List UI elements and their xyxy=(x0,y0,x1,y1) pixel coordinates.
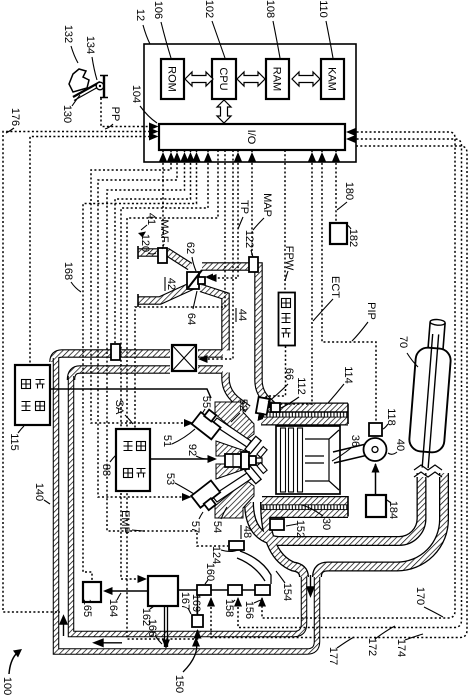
svg-text:112: 112 xyxy=(295,377,307,395)
throttle plate 64 xyxy=(188,270,202,288)
label MAF xyxy=(158,219,170,249)
box 162 xyxy=(148,576,178,606)
svg-text:CPU: CPU xyxy=(217,67,229,90)
flow arrow down in tee xyxy=(307,575,314,596)
MAF sensor 120 xyxy=(158,248,167,263)
RAM 108 xyxy=(266,59,289,99)
crankshaft 40 xyxy=(364,438,387,461)
label 120 xyxy=(139,234,156,254)
label 48 xyxy=(241,525,253,539)
svg-text:66: 66 xyxy=(283,368,295,380)
wire to sensor 144 xyxy=(115,150,191,343)
valve 167/169 xyxy=(192,615,203,627)
box 160 xyxy=(197,585,211,595)
bus arrow CPU-I/O vertical xyxy=(217,100,231,123)
svg-text:41: 41 xyxy=(145,213,157,225)
label 164 xyxy=(107,593,121,617)
arrow 162 to 165 xyxy=(106,590,148,592)
label 168 xyxy=(62,262,81,292)
label 130 xyxy=(61,95,80,123)
muffler break squiggle xyxy=(414,465,442,477)
valve actuator 51 xyxy=(192,407,225,440)
svg-text:140: 140 xyxy=(33,483,45,501)
ignition wire with arrow xyxy=(150,458,210,460)
exhaust sensor 152 xyxy=(270,519,284,530)
box 156 xyxy=(255,585,270,595)
label 174 xyxy=(395,634,423,657)
label 62 xyxy=(184,242,196,271)
svg-text:120: 120 xyxy=(139,234,151,252)
svg-text:170: 170 xyxy=(414,587,426,605)
cylinder wall end caps xyxy=(347,404,349,517)
label 170 xyxy=(414,587,443,617)
box 158 xyxy=(228,585,242,595)
PEDAL xyxy=(69,69,108,101)
wire to valve 167/169 xyxy=(127,150,218,639)
svg-text:177: 177 xyxy=(327,647,339,665)
svg-text:TP: TP xyxy=(238,200,250,214)
label 160 xyxy=(204,563,216,584)
label 51 xyxy=(161,429,195,447)
svg-text:102: 102 xyxy=(203,0,215,18)
label 156 xyxy=(243,600,261,619)
svg-text:PP: PP xyxy=(109,107,121,122)
svg-text:PIP: PIP xyxy=(365,302,377,320)
svg-text:172: 172 xyxy=(366,638,378,656)
wire 180 to sensor 182 xyxy=(335,150,337,222)
exhaust valve 54 stem xyxy=(212,473,251,502)
label 134 xyxy=(84,36,97,80)
label 177 xyxy=(327,637,354,665)
CONTROLLER xyxy=(144,44,356,162)
svg-text:167: 167 xyxy=(179,592,191,610)
svg-text:40: 40 xyxy=(394,439,406,451)
label 115 xyxy=(8,426,24,451)
wire to valve actuator 53 xyxy=(98,150,188,497)
label 55 xyxy=(200,396,212,414)
svg-text:168: 168 xyxy=(62,262,74,280)
svg-text:169: 169 xyxy=(190,594,202,612)
label 182 xyxy=(347,225,359,247)
svg-text:104: 104 xyxy=(130,85,142,103)
label 140 xyxy=(33,483,50,504)
label 66 xyxy=(268,368,295,402)
svg-text:184: 184 xyxy=(387,501,399,519)
svg-text:150: 150 xyxy=(173,675,185,693)
fuel system 115 box xyxy=(15,365,50,425)
label 57 xyxy=(189,512,203,533)
wire to valve actuator 51 xyxy=(91,150,190,423)
arrow 100 xyxy=(9,654,16,674)
svg-text:114: 114 xyxy=(342,366,354,384)
label TP xyxy=(238,200,250,229)
label 53 xyxy=(164,473,194,494)
label 40 xyxy=(388,439,406,454)
sensor 182 box xyxy=(330,223,347,244)
connecting rod xyxy=(333,444,368,463)
I/O 104 bar xyxy=(159,124,345,150)
flow arrow left in bottom pipe xyxy=(94,639,122,646)
svg-text:48: 48 xyxy=(241,526,253,538)
svg-text:156: 156 xyxy=(243,601,255,619)
svg-text:164: 164 xyxy=(107,599,119,617)
label 132 xyxy=(62,25,78,63)
box 165 xyxy=(83,582,101,602)
svg-text:SA: SA xyxy=(113,400,125,415)
inlet mouth caps xyxy=(137,246,139,307)
label 118 xyxy=(383,408,397,429)
flow arrow up in riser xyxy=(60,616,67,636)
svg-text:55: 55 xyxy=(200,396,212,408)
label FPW xyxy=(283,246,295,281)
svg-text:62: 62 xyxy=(184,242,196,254)
svg-text:166: 166 xyxy=(146,619,158,637)
svg-text:70: 70 xyxy=(397,336,409,348)
intake valve 52 stem xyxy=(212,418,251,447)
label 152 xyxy=(286,520,306,538)
svg-text:100: 100 xyxy=(1,677,13,695)
wire 168 xyxy=(83,150,197,581)
wire right loop to 156 xyxy=(262,132,455,618)
fuel injector 66 xyxy=(255,397,269,420)
wire FPW to driver xyxy=(284,150,286,292)
svg-text:106: 106 xyxy=(152,1,164,19)
wire EMP to sensor 124 xyxy=(107,150,228,546)
controller 12 outline xyxy=(144,44,356,162)
label 70 xyxy=(397,336,418,367)
KAM 110 xyxy=(321,59,344,99)
label 36 xyxy=(332,435,361,461)
svg-text:92: 92 xyxy=(186,444,198,456)
label 158 xyxy=(223,599,235,617)
conduit 154 xyxy=(237,551,271,584)
label 30 xyxy=(302,505,332,530)
label 104 xyxy=(130,85,157,123)
label 122 xyxy=(243,230,255,257)
label 52 xyxy=(231,399,249,422)
driver box xyxy=(279,293,296,346)
pedal plate 134 xyxy=(73,82,100,97)
label 180 xyxy=(337,182,355,210)
MAP sensor 122 xyxy=(249,257,258,272)
throttle actuator xyxy=(198,277,205,284)
coolant sleeve comb lower xyxy=(262,505,348,510)
label 176 xyxy=(6,108,21,133)
label 184 xyxy=(387,500,399,519)
svg-text:ROM: ROM xyxy=(166,66,178,92)
label 124 xyxy=(210,546,238,564)
mount bracket xyxy=(103,76,105,97)
svg-text:88: 88 xyxy=(100,464,112,476)
svg-text:122: 122 xyxy=(243,230,255,248)
EGR valve sensor 144 xyxy=(111,344,120,360)
wire 176 xyxy=(3,132,150,613)
exhaust sensor 124 xyxy=(229,541,244,550)
label 169 xyxy=(190,594,202,614)
svg-text:RAM: RAM xyxy=(271,67,283,91)
svg-text:51: 51 xyxy=(161,435,173,447)
label 41 with arrow xyxy=(138,213,157,238)
label 172 xyxy=(366,626,395,656)
label 106 xyxy=(152,1,171,58)
label 166 xyxy=(146,619,162,644)
head block lower (exhaust side) xyxy=(215,480,254,518)
head wedge mid-upper xyxy=(216,441,248,456)
label 54 xyxy=(211,507,227,533)
label 64 xyxy=(185,291,197,325)
svg-text:MAF: MAF xyxy=(158,219,170,243)
svg-text:54: 54 xyxy=(211,521,223,533)
svg-text:182: 182 xyxy=(347,229,359,247)
label SA xyxy=(113,400,133,424)
svg-text:180: 180 xyxy=(343,182,355,200)
svg-text:154: 154 xyxy=(281,583,293,601)
label 110 xyxy=(317,0,333,58)
svg-text:176: 176 xyxy=(9,108,21,126)
svg-text:152: 152 xyxy=(294,520,306,538)
svg-text:44: 44 xyxy=(236,309,248,321)
CPU 102 xyxy=(212,59,236,99)
wire MAP xyxy=(251,150,253,256)
spark plug 92 xyxy=(225,454,241,467)
hall sensor 118 xyxy=(369,423,382,436)
svg-text:130: 130 xyxy=(61,105,73,123)
muffler 70 xyxy=(407,318,454,469)
svg-text:52: 52 xyxy=(237,399,249,411)
label ECT xyxy=(313,276,341,321)
wire PIP xyxy=(322,150,376,421)
ROM 106 xyxy=(161,59,184,99)
label 167 xyxy=(179,592,191,614)
ignition system 88 box xyxy=(116,429,150,491)
wire MAF xyxy=(162,150,164,246)
throttle 62 body xyxy=(187,272,199,289)
label 162 xyxy=(140,606,154,626)
label 114 xyxy=(328,366,354,403)
svg-text:124: 124 xyxy=(210,546,222,564)
doser 166 xyxy=(165,606,168,647)
ECT sensor 112 xyxy=(271,403,280,412)
arrow 150 xyxy=(183,640,197,672)
svg-text:ECT: ECT xyxy=(329,276,341,298)
EGR cooler 142 xyxy=(172,345,196,371)
label 92 xyxy=(186,444,207,459)
head wedge mid-lower xyxy=(216,464,248,479)
bus arrow ROM-CPU xyxy=(185,72,213,86)
wire driver to injector 66 xyxy=(265,346,286,400)
svg-text:36: 36 xyxy=(349,435,361,447)
wire right loop to 160 xyxy=(211,146,467,638)
label 44 xyxy=(236,308,248,322)
label 102 xyxy=(203,0,225,58)
svg-text:EMP: EMP xyxy=(119,510,131,534)
svg-text:134: 134 xyxy=(84,36,96,54)
head block upper (intake side) xyxy=(215,402,254,440)
wire SA to ignition system xyxy=(135,150,225,428)
svg-text:12: 12 xyxy=(134,9,146,21)
pivot 130 xyxy=(96,82,104,90)
bus arrow CPU-RAM xyxy=(237,72,265,86)
svg-text:53: 53 xyxy=(164,473,176,485)
label PIP xyxy=(352,302,377,341)
label 12 xyxy=(134,9,150,44)
svg-text:108: 108 xyxy=(264,0,276,18)
svg-text:42: 42 xyxy=(165,278,177,290)
wire to EGR cooler 142 xyxy=(207,150,233,359)
label MAP xyxy=(253,193,273,230)
svg-text:118: 118 xyxy=(385,408,397,426)
fuel line xyxy=(50,389,211,398)
svg-text:FPW: FPW xyxy=(283,246,295,271)
label 112 xyxy=(281,377,307,408)
wire to 162 xyxy=(121,150,208,579)
svg-text:64: 64 xyxy=(185,313,197,325)
label EMP xyxy=(119,510,143,534)
label 42 xyxy=(165,277,177,291)
label 108 xyxy=(264,0,280,58)
svg-text:30: 30 xyxy=(320,518,332,530)
svg-text:110: 110 xyxy=(317,0,329,18)
foot 132 xyxy=(69,69,89,92)
svg-text:115: 115 xyxy=(8,433,20,451)
svg-text:57: 57 xyxy=(189,521,201,533)
box 184 xyxy=(366,495,386,517)
svg-text:MAP: MAP xyxy=(261,193,273,217)
wire PP from pedal xyxy=(101,98,150,127)
label 88 xyxy=(100,455,116,476)
svg-text:160: 160 xyxy=(204,563,216,581)
connectors xyxy=(178,590,255,615)
svg-text:KAM: KAM xyxy=(326,67,338,91)
label 154 xyxy=(276,571,293,601)
svg-text:I/O: I/O xyxy=(245,130,257,145)
valve actuator 53 xyxy=(191,480,224,513)
wire to fuel system xyxy=(30,137,150,365)
svg-text:174: 174 xyxy=(395,639,407,657)
svg-text:165: 165 xyxy=(81,599,93,617)
bus arrow RAM-KAM xyxy=(292,72,320,86)
wire ECT xyxy=(281,150,312,404)
coolant sleeve comb upper xyxy=(262,412,348,417)
wire right loop to 158 xyxy=(238,139,462,628)
svg-text:132: 132 xyxy=(62,25,74,43)
piston 36 xyxy=(276,426,340,494)
wire TP throttle xyxy=(215,150,238,278)
BOTTOM xyxy=(9,576,270,674)
